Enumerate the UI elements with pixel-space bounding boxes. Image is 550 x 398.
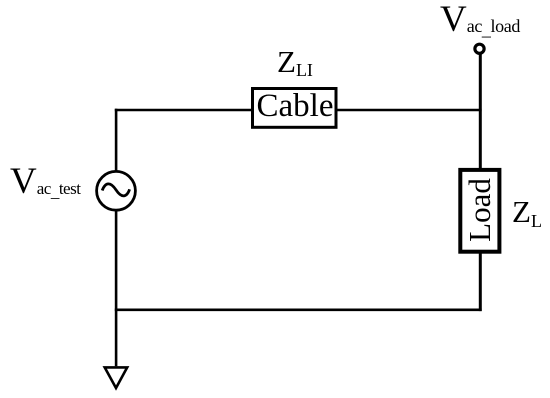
- wire right vertical upper (terminal to load): [479, 55, 482, 170]
- label Z_LI: [277, 44, 313, 80]
- terminal node V_ac_load: [475, 44, 484, 53]
- wire top rail right segment: [336, 109, 482, 112]
- wire left vertical (source to ground): [115, 212, 118, 367]
- label V_ac_test: [10, 160, 80, 203]
- wire top rail left segment: [115, 109, 253, 112]
- label Z_L: [512, 194, 542, 230]
- wire bottom rail: [115, 308, 482, 311]
- label Cable: [253, 89, 337, 125]
- ac source V_ac_test: [97, 171, 136, 210]
- load box Z_L: [460, 170, 499, 252]
- wire top-left vertical (source to top rail): [115, 109, 118, 171]
- ground: [105, 367, 128, 388]
- label Load (rotated): [460, 170, 499, 250]
- wire right vertical lower (load to bottom rail): [479, 253, 482, 311]
- ac source sine wave: [102, 184, 129, 196]
- cable box Z_LI: [253, 89, 337, 128]
- label V_ac_load: [440, 0, 520, 41]
